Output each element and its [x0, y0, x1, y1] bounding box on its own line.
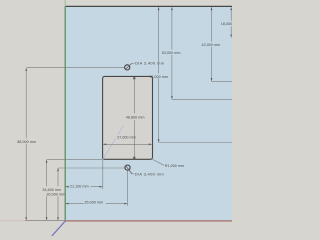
sketch profile fill (blue region) — [65, 6, 232, 221]
dim B 53000 line (gap for label) — [171, 7, 173, 49]
faint axis extension left of origin — [0, 220, 65, 222]
point on rect bottom edge — [133, 157, 135, 159]
arrows dim 34600 — [46, 160, 48, 163]
dim 35000 line (gap for label) — [66, 203, 84, 205]
dim 30000 line (gap for label) — [57, 168, 59, 186]
dim A 76000 line (gap for label) — [158, 7, 160, 73]
svg-text:30,000 mm: 30,000 mm — [46, 193, 65, 197]
svg-text:18,000 mm: 18,000 mm — [221, 22, 232, 26]
baseline extension line for bottom dims — [25, 219, 64, 221]
svg-text:21,100 mm: 21,100 mm — [70, 185, 89, 189]
arrows dim A 76000 — [158, 7, 160, 10]
Z axis (blue diagonal) — [52, 221, 66, 236]
dim 46800 line upper part (inside rect) — [133, 77, 135, 114]
dim 46800 line lower part (inside rect) — [133, 120, 135, 158]
Y axis (green) above top line — [64, 0, 66, 6]
dim D 18000 line (gap for label) — [230, 7, 232, 21]
arrows dim 27000 — [103, 143, 106, 145]
circle C2 (DIA 3,400) — [125, 165, 130, 170]
dim 21100 line (gap for label) — [66, 186, 70, 188]
Y axis (green) — [64, 6, 66, 221]
svg-text:35,000 mm: 35,000 mm — [84, 200, 103, 204]
svg-text:76,000 mm: 76,000 mm — [149, 75, 168, 79]
svg-text:27,000 mm: 27,000 mm — [117, 135, 136, 139]
svg-text:53,000 mm: 53,000 mm — [162, 51, 181, 55]
extension line from C2 to left — [58, 167, 125, 169]
extension line rect bottom-left corner down — [102, 160, 104, 190]
dim C 42000 line (gap for label) — [211, 7, 213, 42]
svg-text:86,000 mm: 86,000 mm — [17, 140, 36, 144]
dim 86000 line (gap for label) — [25, 68, 27, 138]
arrows dim 30000 — [57, 168, 59, 171]
circle C1 (DIA 3,400) — [125, 65, 130, 70]
arrows dim B 53000 — [171, 7, 173, 10]
extension line B bottom to right edge — [172, 98, 232, 100]
svg-text:DIA 3,400 mm: DIA 3,400 mm — [135, 60, 165, 65]
fillet radius leader at bottom-right corner — [153, 159, 164, 165]
dim 27000 line (inside rect) — [103, 143, 152, 145]
arrows dim 21100 — [66, 186, 69, 188]
svg-text:DIA 3,400 mm: DIA 3,400 mm — [135, 171, 165, 176]
svg-text:46,800 mm: 46,800 mm — [126, 116, 145, 120]
svg-text:R1,000 mm: R1,000 mm — [165, 164, 184, 168]
extension line from C1 to left — [26, 67, 124, 69]
extension line rect bottom edge to left — [47, 159, 103, 161]
arrows dim C 42000 — [211, 7, 213, 10]
inner rectangle (profile) — [103, 76, 153, 159]
diagonal construction line inside rect — [103, 125, 123, 159]
point on rect top edge — [133, 77, 135, 79]
leader for C1 — [125, 64, 131, 70]
extension line from C2 down — [126, 171, 128, 206]
svg-text:42,000 mm: 42,000 mm — [202, 43, 221, 47]
extension line C bottom to right edge — [212, 80, 233, 82]
extension line A bottom to right edge — [159, 142, 232, 144]
top edge line — [65, 5, 232, 7]
leader for C2 — [126, 166, 133, 174]
arrows dim D 18000 — [230, 7, 232, 10]
knockout behind 27,000 label — [115, 135, 140, 139]
svg-text:34,600 mm: 34,600 mm — [42, 188, 61, 192]
dim 34600 line (gap for label) — [46, 160, 48, 186]
arrows dim 86000 — [25, 68, 27, 71]
arrows dim 35000 — [66, 203, 69, 205]
knockout behind 46,800 label — [125, 115, 144, 120]
X axis (red) — [65, 220, 232, 222]
